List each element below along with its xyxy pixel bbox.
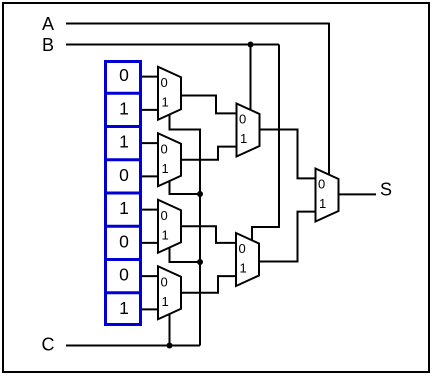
svg-text:0: 0 <box>161 141 168 156</box>
junction on B at U5 select branch <box>248 42 254 48</box>
label B <box>42 35 54 55</box>
wire B branch to mux U5 select <box>250 45 252 112</box>
constant column box <box>104 62 142 325</box>
mux U4 <box>158 266 181 319</box>
wire constant cell 2 to U1 input 1 <box>139 109 159 111</box>
wire mux U5 output to mux U7 input 0 <box>260 130 317 179</box>
wire net A horizontal <box>66 24 329 177</box>
constant cell 4 value 0 <box>119 165 129 185</box>
constant cell 5 value 1 <box>119 198 129 218</box>
label A <box>42 14 54 34</box>
mux U6 <box>236 233 259 286</box>
mux U7 <box>316 169 339 222</box>
svg-text:0: 0 <box>119 231 129 251</box>
junction on C trunk at U2 select <box>197 191 203 197</box>
wire mux U4 output to mux U6 input 1 <box>181 276 237 293</box>
svg-text:0: 0 <box>318 177 325 192</box>
svg-text:0: 0 <box>161 208 168 223</box>
wire mux U3 select to C trunk <box>170 247 201 262</box>
label C <box>42 335 55 355</box>
svg-text:1: 1 <box>319 196 326 211</box>
svg-text:0: 0 <box>119 65 129 85</box>
constant cell 1 value 0 <box>119 65 129 85</box>
svg-text:1: 1 <box>119 132 129 152</box>
constant cell 3 value 1 <box>119 132 129 152</box>
svg-text:1: 1 <box>162 94 169 109</box>
wire constant cell 3 to U2 input 0 <box>139 142 159 144</box>
mux U3 <box>158 200 181 253</box>
svg-text:1: 1 <box>240 131 247 146</box>
wire constant cell 1 to U1 input 0 <box>139 76 159 78</box>
junction on C trunk at U3 select <box>197 259 203 265</box>
svg-text:0: 0 <box>161 274 168 289</box>
wire net B horizontal <box>66 44 279 46</box>
constant cell 7 value 0 <box>119 265 129 285</box>
wire constant cell 8 to U4 input 1 <box>139 308 159 310</box>
wire constant cell 7 to U4 input 0 <box>139 275 159 277</box>
wire constant cell 6 to U3 input 1 <box>139 242 159 244</box>
svg-text:S: S <box>380 180 392 200</box>
wire constant cell 5 to U3 input 0 <box>139 209 159 211</box>
svg-text:0: 0 <box>161 75 168 90</box>
svg-text:0: 0 <box>119 265 129 285</box>
wire mux U7 output to S <box>339 193 377 195</box>
svg-text:0: 0 <box>119 165 129 185</box>
label S <box>380 180 392 200</box>
wire mux U6 output to mux U7 input 1 <box>259 212 317 262</box>
wire mux U2 select to C trunk <box>170 181 201 195</box>
wire mux U1 output to mux U5 input 0 <box>181 96 238 114</box>
svg-text:0: 0 <box>239 112 246 127</box>
mux U2 <box>158 133 181 186</box>
mux U1 <box>158 67 181 120</box>
svg-text:1: 1 <box>162 294 169 309</box>
svg-text:1: 1 <box>162 161 169 176</box>
constant cell 2 value 1 <box>119 98 129 118</box>
wire C vertical trunk to mux U1 select <box>170 114 201 346</box>
svg-text:1: 1 <box>119 98 129 118</box>
svg-text:1: 1 <box>119 298 129 318</box>
constant cell 8 value 1 <box>119 298 129 318</box>
wire B branch to mux U6 select <box>252 45 279 243</box>
wire net C horizontal <box>66 345 200 347</box>
svg-text:C: C <box>42 335 55 355</box>
wire mux U3 output to mux U6 input 0 <box>181 226 237 243</box>
svg-text:1: 1 <box>162 227 169 242</box>
constant cell 6 value 0 <box>119 231 129 251</box>
mux U5 <box>237 104 260 157</box>
wire constant cell 4 to U2 input 1 <box>139 175 159 177</box>
svg-text:1: 1 <box>119 198 129 218</box>
wire C branch to mux U4 select <box>169 313 171 346</box>
svg-text:B: B <box>42 35 54 55</box>
svg-text:A: A <box>42 14 54 34</box>
svg-text:1: 1 <box>240 261 247 276</box>
wire mux U2 output to mux U5 input 1 <box>181 147 238 160</box>
junction on C at U4 select branch <box>167 343 173 349</box>
svg-text:0: 0 <box>239 241 246 256</box>
